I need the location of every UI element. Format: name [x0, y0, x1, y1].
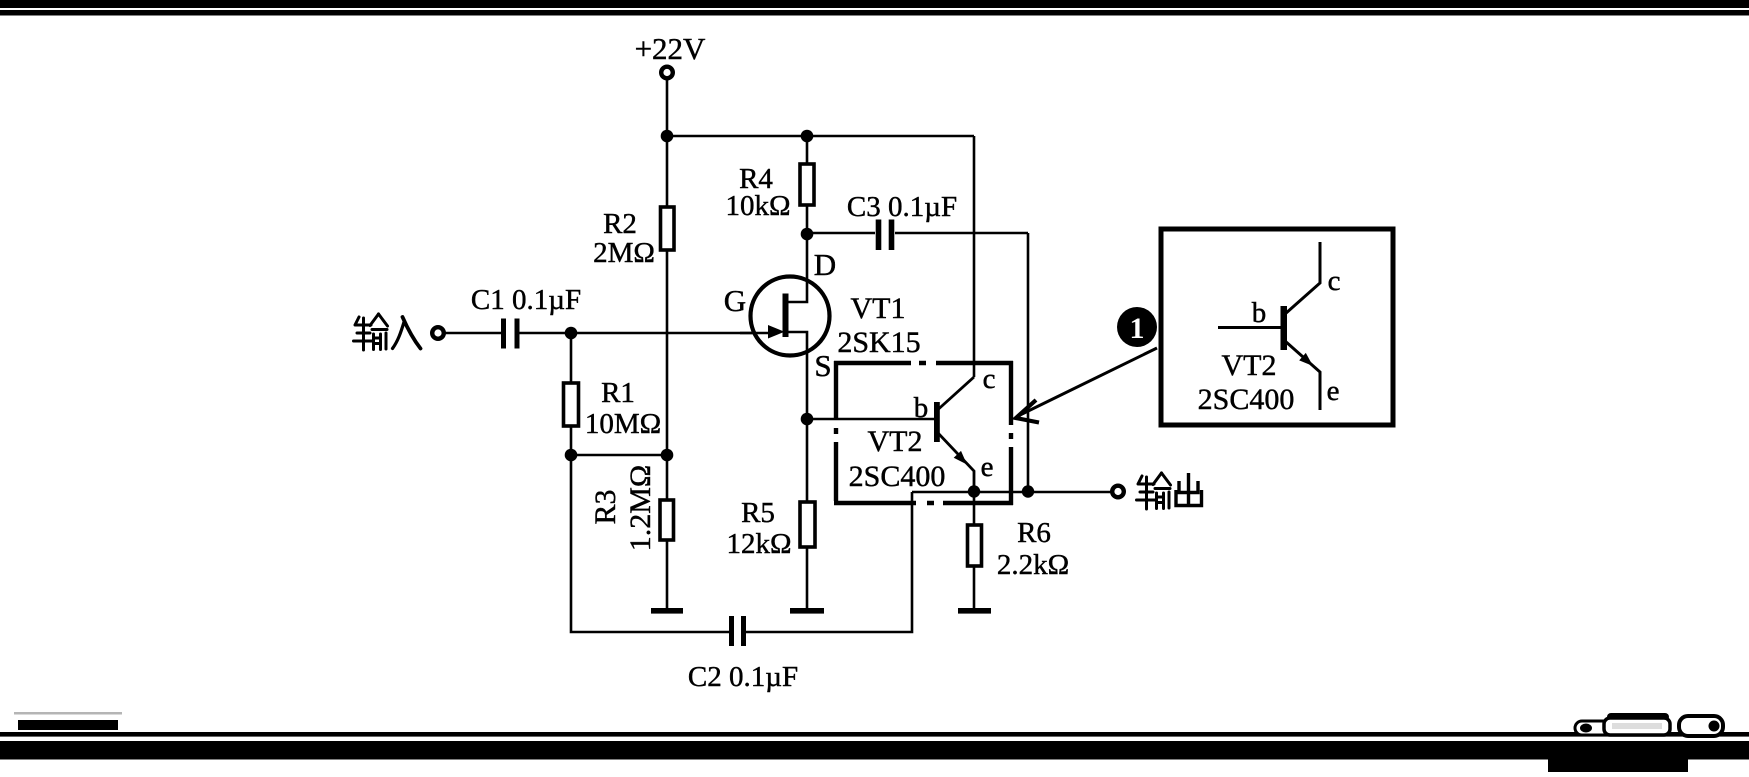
svg-text:e: e — [1327, 375, 1340, 407]
resistor R5 — [726, 497, 815, 608]
top border bars — [0, 0, 1749, 8]
svg-text:2SC400: 2SC400 — [1198, 383, 1295, 416]
svg-text:C2 0.1µF: C2 0.1µF — [688, 661, 798, 693]
svg-text:R2: R2 — [603, 208, 637, 240]
wire gate line — [520, 332, 769, 335]
svg-text:10kΩ: 10kΩ — [725, 190, 790, 222]
JFET VT1 2SK15 — [724, 234, 921, 502]
svg-text:12kΩ: 12kΩ — [726, 528, 791, 560]
svg-text:C3 0.1µF: C3 0.1µF — [847, 191, 957, 223]
resistor R6 — [968, 491, 1070, 608]
svg-text:b: b — [1252, 297, 1267, 329]
node junction at +22V rail left — [661, 130, 674, 143]
svg-text:VT2: VT2 — [1222, 349, 1277, 382]
svg-text:VT1: VT1 — [851, 292, 906, 325]
node junction R1 bottom — [565, 449, 578, 462]
wire output row — [912, 491, 1111, 494]
ground under R6 — [958, 608, 991, 614]
svg-text:2SK15: 2SK15 — [837, 326, 920, 359]
svg-text:b: b — [914, 392, 929, 424]
wire R4 leads — [806, 136, 809, 234]
resistor R1 — [564, 333, 662, 455]
resistor R2 — [593, 207, 674, 269]
svg-text:C1 0.1µF: C1 0.1µF — [471, 284, 581, 316]
node junction at gate / R1 top — [565, 327, 578, 340]
svg-text:10MΩ: 10MΩ — [585, 408, 661, 440]
wire +22V vertical to R2 top — [666, 80, 669, 207]
svg-text:VT2: VT2 — [868, 425, 923, 458]
svg-text:c: c — [1328, 265, 1341, 297]
capacitor C2 — [688, 616, 798, 693]
wire base lead — [807, 418, 934, 421]
node junction at R4 top — [801, 130, 814, 143]
svg-text:2.2kΩ: 2.2kΩ — [997, 549, 1069, 581]
node junction output/C3 — [1022, 485, 1034, 497]
ground under R3 — [651, 608, 683, 614]
dash-dot highlight box around VT2 — [834, 361, 1013, 505]
resistor R4 — [725, 163, 814, 222]
svg-text:1: 1 — [1130, 312, 1145, 345]
callout box VT2 detail — [1161, 229, 1393, 425]
wire C3 to output node — [1027, 233, 1030, 491]
node junction emitter — [968, 485, 980, 497]
wire bootstrap from node row to C2 — [571, 455, 729, 632]
wire R2 bottom to node row — [666, 250, 669, 500]
svg-text:R3: R3 — [589, 489, 622, 524]
wire top rail — [667, 135, 974, 138]
wire node row R1-R3 — [571, 454, 667, 457]
svg-text:S: S — [814, 348, 831, 383]
ground under R5 — [790, 608, 824, 614]
svg-text:2MΩ: 2MΩ — [593, 237, 655, 269]
output terminal 输出 — [1112, 473, 1201, 509]
node junction source/base — [801, 413, 814, 426]
svg-text:R1: R1 — [601, 377, 635, 409]
bottom page furniture — [14, 712, 122, 715]
svg-text:R6: R6 — [1017, 517, 1051, 549]
svg-text:+22V: +22V — [635, 31, 706, 66]
svg-text:2SC400: 2SC400 — [849, 460, 946, 493]
svg-text:G: G — [724, 283, 746, 318]
capacitor C1 — [445, 284, 581, 349]
wire C2 to output node — [746, 492, 912, 632]
svg-text:1.2MΩ: 1.2MΩ — [624, 465, 657, 551]
transistor VT2 2SC400 (in circuit) — [849, 363, 996, 493]
svg-text:c: c — [983, 363, 996, 395]
svg-text:R5: R5 — [741, 497, 775, 529]
resistor R3 — [589, 465, 674, 608]
node junction R3 top — [661, 449, 674, 462]
svg-text:e: e — [981, 451, 994, 483]
callout arrow bullet 1 — [1016, 307, 1157, 423]
node junction at R4 bottom / drain — [801, 228, 814, 241]
input terminal 输入 — [354, 314, 444, 350]
bottom-right icons — [1575, 713, 1723, 736]
power terminal +22V — [635, 31, 706, 78]
wire collector drop from top rail — [973, 136, 976, 377]
capacitor C3 — [807, 191, 1028, 250]
svg-text:D: D — [814, 247, 836, 282]
